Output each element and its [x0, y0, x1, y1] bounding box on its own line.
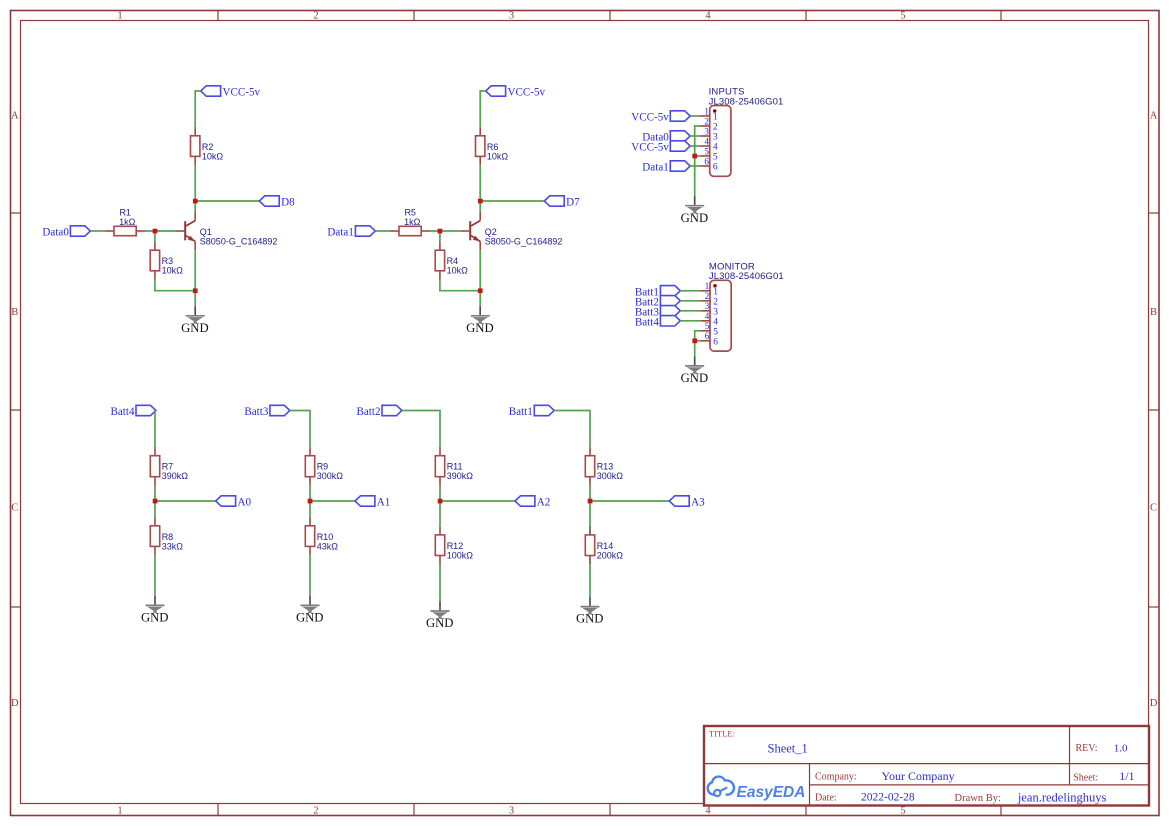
net flag D8	[259, 196, 295, 209]
svg-text:S8050-G_C164892: S8050-G_C164892	[485, 236, 563, 246]
svg-text:Your Company: Your Company	[882, 769, 955, 783]
wire Data1 flag to R5	[375, 230, 390, 232]
svg-text:5: 5	[704, 146, 709, 156]
wire R3 to emitter node	[155, 280, 195, 291]
svg-text:Q2: Q2	[485, 227, 497, 237]
wire VCC-5v flag to INPUTS pin 4	[690, 145, 700, 147]
resistor R5 1k&#937;	[390, 226, 430, 235]
ground symbol below R14	[576, 597, 604, 626]
svg-text:R7: R7	[162, 462, 174, 472]
resistor R13 300k&#937;	[585, 447, 594, 486]
svg-text:6: 6	[713, 337, 718, 347]
svg-text:GND: GND	[681, 211, 709, 225]
CN-INPUTS pin 3	[700, 126, 718, 142]
svg-text:Batt4: Batt4	[635, 317, 659, 329]
svg-text:Company:: Company:	[815, 772, 857, 783]
wire R8 to GND	[154, 555, 156, 596]
wire INPUTS pin 2 to GND rail	[695, 126, 700, 196]
wire R6 to collector node	[479, 165, 481, 201]
svg-text:2: 2	[705, 291, 710, 301]
svg-text:EasyEDA: EasyEDA	[737, 784, 806, 801]
CN-INPUTS pin 1	[700, 106, 718, 122]
svg-text:3: 3	[713, 307, 718, 317]
svg-text:Date:: Date:	[815, 793, 837, 804]
wire emitter node to GND Q2	[479, 291, 481, 307]
ground symbol below INPUTS	[681, 196, 709, 225]
svg-text:5: 5	[900, 805, 905, 816]
net flag Batt3 to MONITOR pin 3	[635, 306, 680, 319]
wire collector node to D7 flag	[480, 200, 544, 202]
svg-text:A3: A3	[691, 497, 705, 509]
net flag Batt2	[356, 405, 401, 418]
wire MONITOR pin 5 to GND rail	[695, 331, 701, 357]
svg-text:TITLE:: TITLE:	[709, 729, 735, 739]
svg-text:Batt3: Batt3	[244, 406, 268, 418]
wire Data0 flag to INPUTS pin 3	[690, 135, 700, 137]
wire A2 node to flag	[440, 500, 515, 502]
svg-text:4: 4	[713, 317, 718, 327]
svg-text:1kΩ: 1kΩ	[404, 217, 421, 227]
svg-text:1: 1	[713, 287, 718, 297]
svg-text:200kΩ: 200kΩ	[597, 550, 624, 560]
wire R4 to emitter node	[440, 280, 480, 291]
svg-text:R4: R4	[447, 256, 459, 266]
net flag A2	[515, 496, 550, 509]
svg-text:4: 4	[704, 136, 709, 146]
resistor R11 390k&#937;	[435, 447, 444, 486]
wire R10 to GND	[309, 555, 311, 596]
wire INPUTS pin 5 to GND rail	[695, 155, 700, 157]
svg-text:GND: GND	[681, 371, 709, 385]
wire base node to R3	[154, 231, 156, 241]
transistor Q1 S8050 NPN	[175, 212, 195, 251]
svg-text:Sheet:: Sheet:	[1073, 773, 1098, 784]
wire Batt3 flag to MONITOR pin 3	[680, 310, 700, 312]
net flag Data0	[42, 226, 90, 239]
CN-MONITOR pin 3	[700, 301, 718, 317]
svg-text:3: 3	[509, 805, 514, 816]
wire collector node to D8 flag	[195, 200, 259, 202]
svg-text:2: 2	[713, 123, 718, 133]
junction node A2 node	[438, 499, 443, 504]
net flag D7	[544, 196, 580, 209]
svg-text:REV:: REV:	[1076, 743, 1098, 754]
wire Batt4 flag to MONITOR pin 4	[680, 320, 700, 322]
svg-text:Batt1: Batt1	[509, 406, 533, 418]
net flag A3	[669, 496, 705, 509]
svg-text:VCC-5v: VCC-5v	[631, 142, 669, 154]
svg-text:D: D	[11, 698, 19, 709]
svg-text:300kΩ: 300kΩ	[317, 471, 344, 481]
wire Batt3 flag to R9	[290, 411, 310, 447]
wire R11 to A2 node	[439, 486, 441, 502]
svg-text:10kΩ: 10kΩ	[162, 266, 184, 276]
wire VCC-5v flag to R2	[195, 91, 201, 127]
svg-text:jean.redelinghuys: jean.redelinghuys	[1017, 791, 1107, 805]
svg-text:D: D	[1150, 698, 1158, 709]
wire Q2 emitter to node	[479, 250, 481, 291]
wire R14 to GND	[589, 564, 591, 597]
svg-text:10kΩ: 10kΩ	[487, 151, 509, 161]
svg-text:390kΩ: 390kΩ	[162, 471, 189, 481]
net flag VCC-5v above Q1	[201, 86, 261, 99]
resistor R1 1k&#937;	[105, 226, 145, 235]
CN-MONITOR pin 1	[700, 281, 718, 297]
transistor Q2 S8050 NPN	[460, 212, 480, 251]
CN-INPUTS pin 5	[700, 146, 718, 162]
svg-text:Data0: Data0	[42, 227, 69, 239]
svg-text:2: 2	[313, 11, 318, 22]
resistor R10 43k&#937;	[305, 517, 314, 555]
svg-text:A2: A2	[537, 497, 551, 509]
svg-text:5: 5	[713, 327, 718, 337]
svg-text:5: 5	[705, 321, 710, 331]
wire Batt2 flag to MONITOR pin 2	[680, 300, 700, 302]
ground symbol below R8	[141, 596, 169, 625]
net flag VCC-5v above Q2	[486, 86, 546, 99]
svg-text:3: 3	[704, 126, 709, 136]
svg-text:300kΩ: 300kΩ	[597, 471, 624, 481]
svg-text:VCC-5v: VCC-5v	[631, 112, 669, 124]
svg-text:2022-02-28: 2022-02-28	[861, 792, 915, 804]
ground symbol below Q1	[181, 306, 209, 335]
CN-MONITOR pin 6	[700, 331, 718, 347]
svg-text:Data1: Data1	[327, 227, 354, 239]
svg-text:GND: GND	[576, 612, 604, 626]
CN-INPUTS pin 6	[700, 156, 718, 172]
wire R12 to GND	[439, 564, 441, 601]
svg-text:R9: R9	[317, 462, 329, 472]
svg-text:GND: GND	[426, 616, 454, 630]
wire R13 to A3 node	[589, 486, 591, 502]
svg-text:A: A	[11, 110, 19, 121]
resistor R9 300k&#937;	[305, 447, 314, 486]
wire R7 to A0 node	[154, 486, 156, 502]
svg-text:33kΩ: 33kΩ	[162, 541, 184, 551]
wire Batt4 flag to R7	[154, 411, 156, 447]
svg-text:4: 4	[705, 11, 711, 22]
svg-text:R3: R3	[162, 256, 174, 266]
wire Data1 flag to INPUTS pin 6	[690, 165, 700, 167]
wire Batt2 flag to R11	[402, 411, 440, 447]
svg-text:5: 5	[900, 11, 905, 22]
svg-text:6: 6	[713, 163, 718, 173]
net flag Data1 to INPUTS pin 6	[642, 161, 690, 174]
svg-text:S8050-G_C164892: S8050-G_C164892	[200, 236, 278, 246]
svg-text:R2: R2	[202, 142, 214, 152]
svg-text:4: 4	[713, 143, 718, 153]
CN-MONITOR pin 5	[700, 321, 718, 337]
net flag Batt4	[110, 405, 155, 418]
net flag Data1	[327, 226, 375, 239]
junction node A1 node	[308, 499, 313, 504]
wire Data0 flag to R1	[90, 230, 105, 232]
junction node emitter node of Q1	[193, 288, 198, 293]
svg-text:Data1: Data1	[642, 162, 669, 174]
svg-text:2: 2	[704, 116, 709, 126]
svg-text:4: 4	[705, 311, 710, 321]
junction node collector node of Q1	[193, 199, 198, 204]
svg-text:D7: D7	[566, 197, 580, 209]
svg-text:R8: R8	[162, 532, 174, 542]
junction node emitter node of Q2	[478, 288, 483, 293]
wire Batt1 flag to R13	[554, 411, 590, 447]
svg-text:Drawn By:: Drawn By:	[955, 793, 1001, 804]
svg-text:A1: A1	[377, 497, 391, 509]
wire Batt1 flag to MONITOR pin 1	[680, 290, 700, 292]
svg-text:GND: GND	[181, 321, 209, 335]
svg-text:GND: GND	[466, 321, 494, 335]
net flag Batt1	[509, 405, 554, 418]
svg-text:R5: R5	[404, 208, 416, 218]
connector CN-MONITOR JL308-25406G01	[710, 280, 731, 351]
svg-text:VCC-5v: VCC-5v	[508, 87, 546, 99]
svg-text:1kΩ: 1kΩ	[119, 217, 136, 227]
svg-text:1.0: 1.0	[1114, 742, 1128, 754]
wire A2 node to R12	[439, 501, 441, 526]
svg-text:A: A	[1150, 110, 1158, 121]
svg-text:43kΩ: 43kΩ	[317, 541, 339, 551]
svg-text:Sheet_1: Sheet_1	[768, 741, 808, 755]
CN-MONITOR pin 2	[700, 291, 718, 307]
wire node to Q1 collector pin	[194, 201, 196, 212]
svg-text:Q1: Q1	[200, 227, 212, 237]
connector CN-INPUTS JL308-25406G01	[710, 106, 731, 177]
wire emitter node to GND Q1	[194, 291, 196, 307]
svg-text:B: B	[11, 307, 18, 318]
svg-text:JL308-25406G01: JL308-25406G01	[709, 96, 784, 107]
svg-text:VCC-5v: VCC-5v	[223, 87, 261, 99]
svg-text:5: 5	[713, 153, 718, 163]
ground symbol below MONITOR	[681, 356, 709, 385]
wire A0 node to R8	[154, 501, 156, 517]
svg-text:Batt2: Batt2	[356, 406, 380, 418]
wire VCC-5v flag to INPUTS pin 1	[690, 115, 700, 117]
svg-text:C: C	[1150, 503, 1157, 514]
wire R1 to Q1 base	[145, 230, 175, 232]
svg-text:3: 3	[705, 301, 710, 311]
svg-text:2: 2	[713, 297, 718, 307]
junction node A0 node	[153, 499, 158, 504]
svg-text:R13: R13	[597, 462, 614, 472]
svg-text:C: C	[11, 503, 18, 514]
svg-text:4: 4	[705, 805, 711, 816]
svg-text:1: 1	[704, 106, 709, 116]
ground symbol below R12	[426, 602, 454, 631]
wire MONITOR pin 6 to GND rail	[695, 340, 701, 342]
svg-text:R14: R14	[597, 541, 614, 551]
wire A3 node to flag	[590, 500, 669, 502]
wire A1 node to R10	[309, 501, 311, 517]
svg-text:10kΩ: 10kΩ	[447, 266, 469, 276]
ground symbol below Q2	[466, 306, 494, 335]
resistor R7 390k&#937;	[150, 447, 159, 486]
resistor R4 10k&#937;	[435, 241, 444, 279]
junction node MONITOR pin 6 GND tie	[692, 339, 697, 344]
wire R5 to Q2 base	[430, 230, 460, 232]
wire A0 node to flag	[155, 500, 216, 502]
svg-text:10kΩ: 10kΩ	[202, 151, 224, 161]
svg-text:1/1: 1/1	[1119, 769, 1134, 783]
svg-text:A0: A0	[238, 497, 252, 509]
EasyEDA logo	[708, 777, 734, 797]
wire base node to R4	[439, 231, 441, 241]
svg-text:D8: D8	[281, 197, 295, 209]
wire VCC-5v flag to R6	[480, 91, 486, 127]
svg-text:1: 1	[705, 281, 710, 291]
net flag Batt4 to MONITOR pin 4	[635, 316, 680, 329]
net flag A0	[216, 496, 252, 509]
net flag VCC-5v to INPUTS pin 1	[631, 111, 690, 124]
net flag A1	[355, 496, 390, 509]
svg-text:2: 2	[313, 805, 318, 816]
resistor R3 10k&#937;	[150, 241, 159, 279]
resistor R2 10k&#937;	[191, 127, 200, 165]
resistor R14 200k&#937;	[585, 526, 594, 564]
junction node A3 node	[588, 499, 593, 504]
svg-text:6: 6	[705, 331, 710, 341]
svg-text:JL308-25406G01: JL308-25406G01	[709, 271, 784, 282]
resistor R6 10k&#937;	[476, 127, 485, 165]
svg-text:R12: R12	[447, 541, 464, 551]
wire A3 node to R14	[589, 501, 591, 526]
net flag VCC-5v to INPUTS pin 4	[631, 141, 690, 154]
ground symbol below R10	[296, 596, 324, 625]
resistor R8 33k&#937;	[150, 517, 159, 555]
net flag Batt2 to MONITOR pin 2	[635, 296, 680, 309]
wire node to Q2 collector pin	[479, 201, 481, 212]
svg-text:R6: R6	[487, 142, 499, 152]
svg-text:100kΩ: 100kΩ	[447, 550, 474, 560]
svg-text:R10: R10	[317, 532, 334, 542]
title block	[704, 726, 1149, 806]
svg-text:390kΩ: 390kΩ	[447, 471, 474, 481]
svg-text:3: 3	[713, 133, 718, 143]
wire Q1 emitter to node	[194, 250, 196, 291]
net flag Batt1 to MONITOR pin 1	[635, 286, 680, 299]
wire A1 node to flag	[310, 500, 355, 502]
svg-text:6: 6	[704, 156, 709, 166]
CN-INPUTS pin 2	[700, 116, 718, 132]
junction node base node of Q1	[153, 229, 158, 234]
svg-text:R11: R11	[447, 462, 463, 472]
net flag Data0 to INPUTS pin 3	[642, 131, 690, 144]
svg-text:GND: GND	[141, 611, 169, 625]
svg-text:B: B	[1150, 307, 1157, 318]
wire R2 to collector node	[194, 165, 196, 201]
svg-text:R1: R1	[119, 208, 131, 218]
junction node base node of Q2	[438, 229, 443, 234]
wire R9 to A1 node	[309, 486, 311, 502]
junction node collector node of Q2	[478, 199, 483, 204]
svg-text:3: 3	[509, 11, 514, 22]
svg-text:GND: GND	[296, 611, 324, 625]
net flag Batt3	[244, 405, 289, 418]
svg-text:1: 1	[713, 113, 718, 123]
svg-text:1: 1	[117, 805, 122, 816]
CN-MONITOR pin 4	[700, 311, 718, 327]
svg-text:1: 1	[117, 11, 122, 22]
CN-INPUTS pin 4	[700, 136, 718, 152]
svg-text:Batt4: Batt4	[110, 406, 134, 418]
resistor R12 100k&#937;	[435, 526, 444, 564]
junction node INPUTS pin 5 GND tie	[692, 154, 697, 159]
